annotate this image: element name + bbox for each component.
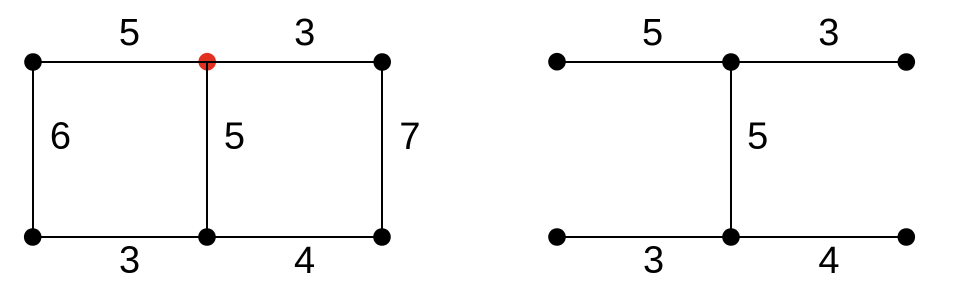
right graph: node E' (bottom-middle)	[722, 228, 740, 246]
left graph: edge D-E (bottom-left horizontal)	[33, 236, 207, 238]
right graph: edge D'-E' (bottom-left horizontal)	[557, 236, 731, 238]
svg-text:3: 3	[119, 240, 140, 282]
svg-text:4: 4	[818, 240, 839, 282]
left graph: node D (bottom-left)	[24, 228, 42, 246]
svg-text:5: 5	[642, 12, 663, 54]
right graph: node A' (top-left)	[548, 53, 566, 71]
right graph: node B' (top-middle)	[722, 53, 740, 71]
svg-text:5: 5	[747, 116, 768, 158]
svg-text:3: 3	[818, 12, 839, 54]
svg-text:3: 3	[643, 240, 664, 282]
left graph: node C (top-right)	[373, 53, 391, 71]
right graph: edge E'-F' (bottom-right horizontal)	[731, 236, 906, 238]
right graph: edge B'-C' (top-right horizontal)	[731, 61, 906, 63]
svg-text:4: 4	[294, 240, 315, 282]
svg-text:7: 7	[399, 116, 420, 158]
left graph: edge C-F (right vertical)	[381, 62, 383, 237]
svg-text:3: 3	[294, 12, 315, 54]
svg-text:6: 6	[50, 116, 71, 158]
right graph: node D' (bottom-left)	[548, 228, 566, 246]
left graph: edge B-E (middle vertical)	[206, 62, 208, 237]
left graph: edge A-D (left vertical)	[32, 62, 34, 237]
left graph: node A (top-left)	[24, 53, 42, 71]
right graph: edge B'-E' (middle vertical)	[730, 62, 732, 237]
left graph: node E (bottom-middle)	[198, 228, 216, 246]
left graph: node F (bottom-right)	[373, 228, 391, 246]
right graph: node F' (bottom-right)	[898, 228, 916, 246]
right graph: edge A'-B' (top-left horizontal)	[557, 61, 731, 63]
svg-text:5: 5	[119, 12, 140, 54]
left graph: edge E-F (bottom-right horizontal)	[207, 236, 382, 238]
svg-text:5: 5	[224, 116, 245, 158]
right graph: node C' (top-right)	[898, 53, 916, 71]
left graph: edge B-C (top-right horizontal)	[207, 61, 382, 63]
left graph: node B (top-middle, red, drawn under edges)	[198, 53, 216, 71]
left graph: edge A-B (top-left horizontal)	[33, 61, 207, 63]
